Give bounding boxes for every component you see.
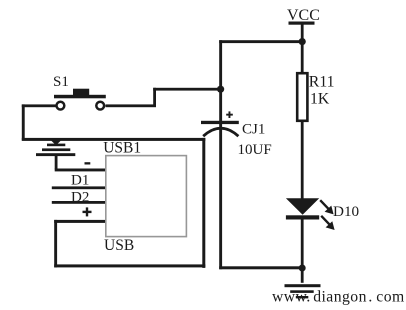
battery BT1 plate wide: [36, 153, 75, 156]
battery BT1 plate small: [47, 144, 65, 147]
LED D10 arrow 2: [321, 216, 334, 230]
svg-text:www.diangon.com: www.diangon.com: [272, 289, 405, 306]
battery BT1 connection triangle: [51, 140, 61, 145]
wire switch right lead: [106, 104, 157, 107]
svg-text:CJ1: CJ1: [242, 121, 265, 137]
svg-text:1K: 1K: [310, 90, 330, 107]
wire left vertical of loop: [54, 220, 57, 268]
LED D10 arrow 1: [320, 200, 333, 214]
pin label minus: [85, 162, 91, 164]
wire left vertical: [22, 104, 25, 140]
svg-text:D1: D1: [71, 172, 89, 188]
svg-text:R11: R11: [309, 74, 335, 91]
wire capacitor lower vertical: [219, 124, 222, 269]
switch S1 button bump: [73, 89, 89, 95]
LED D10 cathode bar: [286, 215, 319, 219]
wire bottom capacitor to LED junction: [219, 266, 304, 269]
power VCC bar: [289, 22, 315, 25]
svg-text:USB1: USB1: [103, 140, 141, 157]
ground symbol line 3: [296, 296, 309, 298]
resistor R11 body: [297, 73, 307, 121]
wire top horizontal: [219, 40, 302, 43]
node junction B dot: [217, 86, 224, 93]
wire junction A to resistor top: [301, 42, 304, 74]
svg-text:USB: USB: [104, 237, 134, 254]
capacitor CJ1 top plate: [201, 121, 239, 124]
wire long horizontal y139: [22, 138, 206, 141]
capacitor CJ1 plus mark: [226, 111, 233, 118]
svg-text:S1: S1: [53, 74, 69, 90]
pin label plus: [83, 207, 92, 216]
wire plus pin horizontal: [54, 220, 106, 223]
wire D2 pin: [52, 201, 106, 204]
wire capacitor branch upper vertical: [219, 40, 222, 121]
wire step vertical: [153, 88, 156, 105]
LED D10 triangle: [286, 198, 319, 215]
ground symbol line 1: [285, 284, 321, 287]
wire switch to junction B horizontal: [153, 88, 220, 91]
node junction A dot: [299, 38, 306, 45]
switch S1 left contact: [57, 102, 65, 110]
svg-text:10UF: 10UF: [238, 142, 272, 158]
switch S1 actuator bar: [54, 95, 106, 99]
battery BT1 plate medium: [42, 148, 70, 151]
wire bottom of loop: [54, 264, 205, 267]
capacitor CJ1 curved bottom plate: [203, 128, 238, 136]
USB connector U1 body box: [106, 156, 187, 237]
wire minus pin horizontal: [55, 169, 106, 172]
wire VCC stem: [301, 25, 304, 42]
svg-text:VCC: VCC: [287, 7, 320, 24]
wire battery stem: [55, 156, 58, 169]
switch S1 right contact: [96, 102, 104, 110]
ground symbol line 2: [290, 290, 314, 293]
wire D1 pin: [52, 186, 106, 189]
wire LED to ground vertical: [301, 219, 304, 282]
wire right vertical of loop: [202, 138, 205, 268]
svg-text:D10: D10: [333, 203, 360, 220]
wire switch left lead: [22, 104, 56, 107]
wire resistor to LED vertical: [301, 121, 304, 199]
node junction C dot: [299, 265, 306, 272]
